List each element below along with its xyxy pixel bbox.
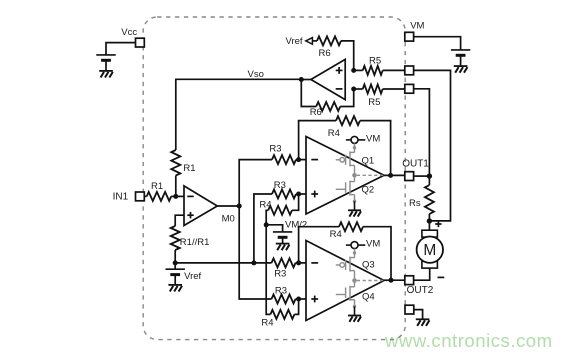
sense+ pad	[405, 66, 414, 75]
op-amp U2 (current sense amp, points left)	[311, 59, 345, 99]
ground (half-bridge source)	[348, 201, 361, 216]
svg-text:R6: R6	[319, 48, 331, 59]
transistor Q1 (PMOS, gray)	[336, 143, 356, 166]
label M0	[222, 213, 235, 224]
node Vref rail junction	[251, 260, 256, 265]
VM supply terminal	[346, 242, 365, 249]
amp B - symbol	[311, 262, 318, 264]
watermark www.cntronics.com	[384, 330, 553, 351]
wire motor to OUT2 pad	[414, 268, 430, 280]
node Vso/U2 output junction	[299, 77, 304, 82]
svg-text:www.cntronics.com: www.cntronics.com	[384, 330, 553, 351]
svg-text:R5: R5	[369, 55, 381, 66]
svg-text:Vso: Vso	[248, 69, 264, 80]
capacitor C-VM (bypass)	[451, 50, 470, 66]
label VM (pad)	[410, 21, 424, 32]
resistor R5 (lower, to sense - pad)	[354, 85, 405, 94]
wire OUT1 pad to Rs column	[414, 175, 430, 177]
label OUT2	[407, 285, 434, 296]
ground (Vcc bypass)	[99, 71, 113, 78]
Vref input port arrow	[306, 38, 313, 45]
wire R1 to node	[175, 176, 177, 197]
label R4 (amp B +)	[261, 317, 273, 328]
label R1 (series)	[151, 181, 163, 192]
svg-text:OUT1: OUT1	[402, 159, 429, 170]
transistor Q2 (NMOS, gray)	[336, 165, 356, 203]
resistor R3 (M0 to amp B +)	[272, 295, 307, 304]
label R3 (amp A -)	[269, 144, 281, 155]
U1 + symbol	[187, 212, 193, 218]
op-amp power amp A	[306, 137, 384, 215]
label Q4	[362, 292, 375, 303]
svg-text:R3: R3	[269, 144, 281, 155]
label R4 (amp A +)	[259, 200, 271, 211]
svg-text:VM: VM	[366, 238, 380, 249]
svg-text:M0: M0	[222, 213, 235, 224]
wire M0 riser down to R3 (amp B +)	[239, 206, 271, 299]
label R6 (feedback)	[310, 107, 322, 118]
resistor R4 (amp B feedback)	[299, 222, 391, 280]
ground (VM bypass)	[454, 66, 468, 73]
svg-text:R6: R6	[310, 107, 322, 118]
wire M0 riser up to R3 (amp A -)	[239, 160, 272, 206]
transistor Q3 (PMOS, gray)	[336, 249, 356, 272]
wire sense+ pad to Rs bottom node	[414, 70, 451, 221]
svg-text:OUT2: OUT2	[407, 285, 434, 296]
svg-text:Rs: Rs	[409, 198, 421, 209]
label R3 (amp A +)	[274, 180, 286, 191]
label M (motor)	[423, 242, 436, 259]
ground (GND pad)	[416, 319, 430, 326]
wire M0 (U1 output)	[217, 205, 239, 207]
wire amp A output to OUT1	[384, 174, 405, 176]
label Vso	[248, 69, 264, 80]
wire U2 output to Vso node	[301, 79, 311, 81]
label R5 (lower)	[368, 97, 380, 108]
IN1 pad	[136, 192, 145, 201]
label VM (amp B)	[366, 238, 380, 249]
sense- pad	[405, 84, 414, 93]
label R1//R1	[180, 237, 210, 248]
node Rs bottom (+ sense)	[427, 218, 432, 223]
label R3 (amp B +)	[275, 286, 287, 297]
node VM/2	[264, 222, 269, 227]
motor M body	[417, 237, 443, 263]
VM supply terminal	[346, 136, 365, 143]
resistor R4 (amp A feedback)	[299, 116, 391, 175]
amp A - symbol	[311, 159, 318, 161]
OUT1 pad	[405, 172, 414, 181]
label Q1	[362, 156, 375, 167]
resistor Rs (current sense)	[425, 176, 434, 221]
resistor R6 (from Vref to U2 +)	[312, 36, 353, 70]
resistor R1//R1 (to Vref)	[171, 226, 180, 250]
node OUT1/Rs junction	[427, 173, 432, 178]
label IN1	[113, 192, 129, 203]
U2 - symbol	[336, 88, 343, 90]
ground (VM/2 cap)	[276, 244, 290, 251]
IC package boundary (dashed)	[143, 17, 405, 340]
resistor R1 (series input)	[144, 192, 184, 201]
svg-text:R3: R3	[274, 180, 286, 191]
svg-text:VM: VM	[410, 21, 424, 32]
output node of half-bridge (gray dot + dashed link to amp output)	[352, 278, 387, 283]
amp A + symbol	[311, 191, 318, 198]
wire Vso net	[176, 79, 301, 150]
node U2 + input	[351, 68, 356, 73]
svg-text:R4: R4	[259, 200, 271, 211]
label OUT1	[402, 159, 429, 170]
resistor R1 (vertical, Vso to IN- node)	[171, 150, 180, 176]
Vcc pad	[136, 38, 145, 47]
wire amp B output to OUT2	[384, 279, 405, 281]
U1 - symbol	[187, 195, 193, 197]
svg-text:R4: R4	[261, 317, 273, 328]
VM pad	[405, 32, 414, 41]
svg-text:Vref: Vref	[184, 271, 201, 282]
label R6 (top)	[319, 48, 331, 59]
label Q3	[362, 259, 375, 270]
OUT2 pad	[405, 276, 414, 285]
wire R1//R1 to Vref node	[174, 250, 176, 263]
label - (motor)	[438, 276, 445, 278]
resistor R6 (U2 feedback)	[301, 80, 353, 112]
label VM (amp A)	[366, 134, 380, 145]
svg-text:R1: R1	[151, 181, 163, 192]
U2 + symbol	[336, 67, 343, 74]
wire Vcc pad to bypass cap	[106, 43, 136, 55]
motor M terminals	[422, 230, 438, 268]
label R1 (vertical)	[183, 163, 195, 174]
resistor R3 (Vref to amp B -)	[272, 258, 307, 267]
svg-text:Q1: Q1	[362, 156, 375, 167]
svg-text:M: M	[423, 242, 436, 259]
node amp A + input	[296, 192, 301, 197]
transistor Q4 (NMOS, gray)	[336, 271, 356, 308]
label R4 (amp B feedback)	[330, 229, 342, 240]
label R4 (amp A feedback)	[328, 128, 340, 139]
node U2 - input	[351, 87, 356, 92]
output node of half-bridge (gray dot + dashed link to amp output)	[352, 173, 387, 178]
svg-text:R5: R5	[368, 97, 380, 108]
node amp B output junction	[389, 278, 394, 283]
label Vcc	[121, 27, 137, 38]
svg-text:R1: R1	[183, 163, 195, 174]
amp B + symbol	[311, 296, 318, 303]
svg-text:Vref: Vref	[286, 36, 303, 47]
GND pad	[405, 305, 414, 314]
svg-text:R3: R3	[274, 269, 286, 280]
resistor R4 (VM/2 to amp B +)	[266, 225, 298, 319]
wire U1 + to R1//R1	[175, 215, 184, 226]
label Vref (bottom)	[184, 271, 201, 282]
capacitor C-VM/2	[266, 225, 292, 244]
svg-text:IN1: IN1	[113, 192, 129, 203]
label + (motor)	[435, 221, 441, 227]
svg-text:Q4: Q4	[362, 292, 375, 303]
op-amp power amp B	[306, 241, 384, 321]
op-amp U1 (input preamp)	[184, 186, 217, 226]
resistor R3 (Vref to amp A +)	[272, 190, 306, 199]
label R3 (amp B -)	[274, 269, 286, 280]
svg-text:R3: R3	[275, 286, 287, 297]
capacitor C-Vcc (bypass)	[96, 55, 115, 71]
node amp A output junction	[388, 173, 393, 178]
node amp B - input	[296, 260, 301, 265]
svg-text:R1//R1: R1//R1	[180, 237, 210, 248]
wire GND pad to ground	[414, 310, 423, 320]
node M0 junction	[237, 204, 242, 209]
node amp A - input	[296, 157, 301, 162]
node U1 - input	[173, 194, 178, 199]
svg-text:R4: R4	[328, 128, 340, 139]
resistor R3 (M0 to amp A -)	[272, 155, 306, 164]
svg-text:Q2: Q2	[362, 185, 375, 196]
label VM/2	[285, 220, 307, 231]
svg-text:Q3: Q3	[362, 259, 375, 270]
wire Vref rail to R3 (amp B -)	[254, 262, 272, 264]
node amp B + input	[296, 297, 301, 302]
svg-text:VM: VM	[366, 134, 380, 145]
svg-text:Vcc: Vcc	[121, 27, 137, 38]
resistor R4 (VM/2 to amp A +)	[266, 194, 298, 225]
label Q2	[362, 185, 375, 196]
wire VM pad to bypass cap	[414, 37, 461, 50]
wire Vref rail	[175, 262, 254, 264]
capacitor C-Vref	[166, 263, 185, 285]
resistor R5 (upper, to sense + pad)	[354, 66, 405, 75]
wire sense- pad to OUT1 node	[414, 89, 430, 176]
svg-text:R4: R4	[330, 229, 342, 240]
label Vref (top)	[286, 36, 303, 47]
wire Rs bottom to motor	[428, 221, 430, 230]
wire Vref riser to R3 (amp A +)	[254, 194, 272, 263]
ground (Vref cap)	[168, 285, 182, 292]
label Rs	[409, 198, 421, 209]
ground (half-bridge source)	[348, 307, 361, 322]
svg-text:VM/2: VM/2	[285, 220, 307, 231]
label R5 (upper)	[369, 55, 381, 66]
node Vref (internal reference)	[173, 260, 178, 265]
